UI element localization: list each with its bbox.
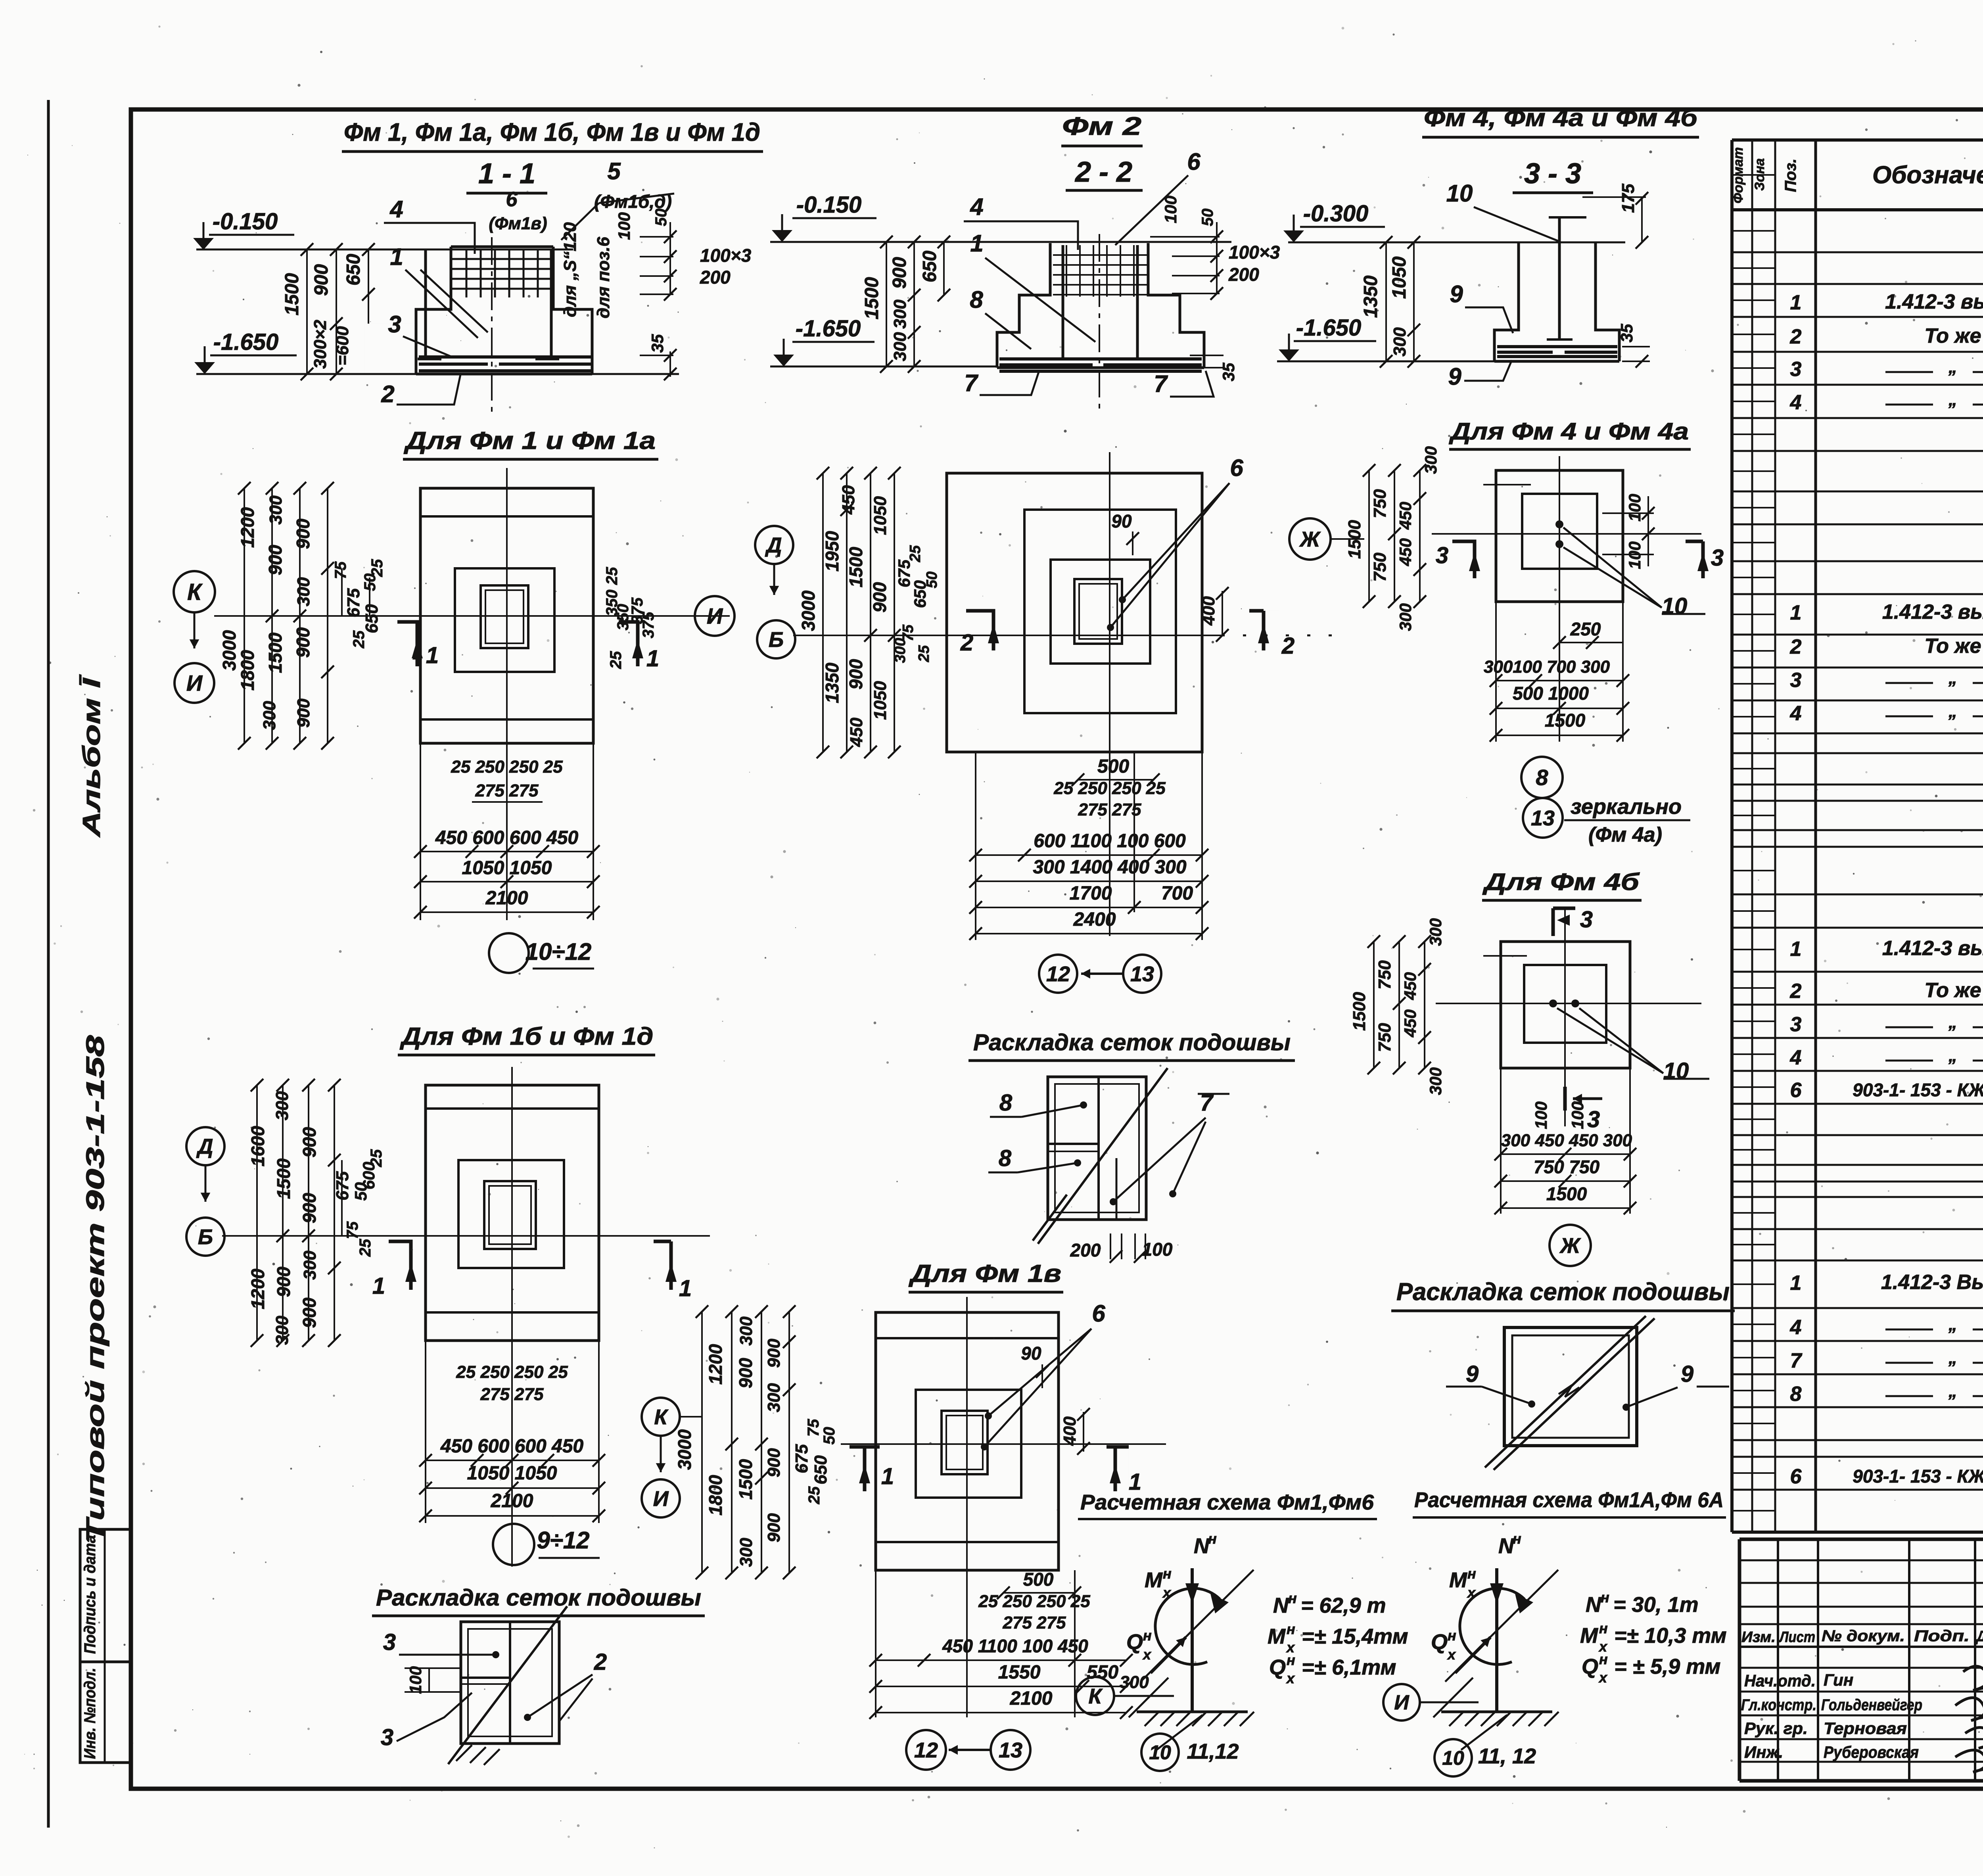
svg-text:(Фм1в): (Фм1в) [489,214,547,233]
svg-text:2: 2 [381,381,394,407]
plan Фм1б section cut 1 marks [389,1241,411,1290]
axis circle И left [175,663,214,703]
svg-text:1200: 1200 [247,1268,268,1309]
svg-text:И: И [1394,1691,1410,1714]
plan Фм4 left dim chain [1368,470,1370,602]
svg-text:M: M [1268,1625,1286,1648]
svg-text:1500: 1500 [282,273,303,315]
svg-text:1: 1 [881,1464,894,1489]
svg-text:25 250 250 25: 25 250 250 25 [1053,779,1166,798]
svg-text:300100 700 300: 300100 700 300 [1484,657,1610,677]
title block outline [1739,1538,1983,1541]
svg-text:675: 675 [792,1444,811,1473]
svg-text:750: 750 [1370,552,1390,582]
svg-text:Раскладка сеток подошвы: Раскладка сеток подошвы [376,1585,701,1611]
svg-text:x: x [1447,1646,1456,1663]
svg-text:Типовой проект 903-1-158: Типовой проект 903-1-158 [81,1035,109,1543]
svg-text:1050: 1050 [871,496,890,535]
axis circle К [174,571,215,612]
svg-text:н: н [1601,1589,1609,1606]
mesh detail 3 break mark [1559,1385,1579,1397]
svg-text:100×3: 100×3 [1229,242,1280,263]
plan Фм4 outer square [1496,470,1623,602]
mesh detail 3 outline [1504,1327,1637,1446]
calc diagram 1 circle 10 и 11,12 [1141,1734,1179,1771]
svg-text:3: 3 [383,1629,396,1655]
svg-text:1800: 1800 [237,650,258,691]
svg-text:1: 1 [970,230,983,257]
svg-text:1.412-3 вып. II: 1.412-3 вып. II [1882,937,1983,960]
section 3-3 left dims [1385,242,1387,361]
svg-text:1500: 1500 [273,1158,294,1199]
svg-text:1050: 1050 [1389,256,1410,299]
plan Фм2 middle tier [1024,510,1176,713]
svg-text:н: н [1599,1620,1608,1636]
svg-text:Q: Q [1431,1630,1448,1654]
svg-text:675: 675 [344,588,363,618]
svg-text:6: 6 [1230,455,1243,481]
section 3-3 bottom mesh [1497,345,1617,348]
svg-text:2: 2 [960,630,973,656]
svg-text:450: 450 [1401,1009,1419,1038]
svg-text:1.412-3 вып.II: 1.412-3 вып.II [1885,290,1983,313]
svg-text:2100: 2100 [485,888,528,909]
svg-text:И: И [653,1487,669,1511]
svg-text:450 600 600 450: 450 600 600 450 [440,1436,584,1457]
svg-text:6: 6 [1092,1300,1105,1327]
svg-text:300: 300 [272,1091,292,1120]
svg-text:300: 300 [890,332,910,361]
svg-text:75: 75 [805,1419,822,1437]
plan Фм1б column [484,1181,536,1249]
svg-text:1: 1 [1790,938,1802,961]
svg-text:10: 10 [1662,593,1688,619]
svg-text:300 1400 400 300: 300 1400 400 300 [1033,857,1186,878]
svg-text:9: 9 [1450,281,1463,307]
svg-text:3: 3 [1790,669,1802,692]
svg-text:25: 25 [603,567,621,585]
svg-text:-1.650: -1.650 [213,329,278,355]
svg-text:зеркально: зеркально [1571,795,1682,819]
svg-text:900: 900 [889,257,910,289]
svg-text:275 275: 275 275 [1078,800,1141,819]
svg-text:4: 4 [1790,1046,1802,1069]
svg-text:9: 9 [1681,1361,1693,1387]
plan Фм1в axes [841,1443,1166,1445]
svg-text:13: 13 [1531,806,1555,830]
axis circle Д right [755,526,793,564]
svg-text:13: 13 [1130,962,1154,986]
svg-text:Для Фм 1в: Для Фм 1в [908,1260,1061,1287]
svg-text:1550: 1550 [998,1662,1041,1683]
svg-text:3: 3 [1587,1107,1600,1132]
svg-text:6: 6 [1187,148,1201,175]
plan Фм1б tier lines [426,1107,599,1110]
plan Фм1в column [942,1411,988,1474]
svg-text:1600: 1600 [247,1126,268,1166]
svg-text:25: 25 [805,1486,823,1504]
svg-text:Инж.: Инж. [1744,1743,1783,1761]
plan Фм1 column [481,585,528,648]
plan Фм1 slab outline [420,488,593,743]
svg-text:1 - 1: 1 - 1 [478,158,535,190]
svg-text:25: 25 [350,630,368,648]
svg-text:M: M [1580,1624,1598,1648]
svg-text:300: 300 [764,1383,784,1412]
svg-text:К: К [1088,1684,1103,1708]
bottom line section 1-1 [196,373,679,375]
svg-text:„: „ [1948,390,1957,409]
svg-text:Для Фм 4 и Фм 4а: Для Фм 4 и Фм 4а [1448,418,1689,445]
svg-text:300 450 450 300: 300 450 450 300 [1501,1131,1632,1150]
svg-text:4: 4 [970,194,983,220]
plan Фм1в middle square [916,1390,1021,1498]
svg-text:50: 50 [821,1427,838,1445]
svg-text:Терновая: Терновая [1824,1719,1907,1738]
svg-text:9: 9 [1448,363,1461,390]
svg-text:100: 100 [1142,1239,1173,1260]
svg-text:M: M [1449,1568,1467,1592]
section 2-2 column mesh hatch [1066,245,1067,297]
svg-text:2: 2 [1281,633,1295,659]
svg-text:н: н [1448,1627,1456,1644]
svg-text:25: 25 [357,1239,374,1257]
svg-text:200: 200 [1070,1240,1101,1260]
svg-text:3: 3 [1436,543,1448,568]
svg-text:2: 2 [594,1649,607,1675]
svg-text:200: 200 [1228,264,1259,285]
svg-text:2400: 2400 [1073,909,1116,930]
plan Фм4б axes [1436,1003,1701,1004]
svg-text:275 275: 275 275 [475,781,539,800]
svg-text:100: 100 [1161,196,1180,223]
svg-text:= 30, 1т: = 30, 1т [1613,1593,1699,1617]
svg-text:1050: 1050 [871,681,890,720]
svg-text:И: И [707,604,723,629]
svg-text:50: 50 [924,572,940,588]
svg-text:Лист: Лист [1778,1629,1815,1646]
svg-text:450 1100 100 450: 450 1100 100 450 [942,1636,1088,1656]
plan Фм4б inner square [1524,965,1606,1043]
svg-text:900: 900 [273,1266,294,1297]
svg-text:300: 300 [260,701,279,730]
svg-text:90: 90 [1021,1343,1041,1364]
plan Фм4 section cut 3 marks [1452,541,1475,578]
svg-text:400: 400 [1060,1416,1080,1446]
svg-text:То же: То же [1924,979,1981,1002]
ground line section 2-2 [770,241,1231,243]
svg-text:-1.650: -1.650 [1296,315,1361,341]
plan Фм4б section cut 3 top [1553,907,1575,910]
svg-text:Подп.: Подп. [1914,1627,1970,1645]
svg-text:=600: =600 [333,326,352,366]
svg-text:3000: 3000 [798,590,819,631]
svg-text:x: x [1142,1646,1152,1663]
svg-text:650: 650 [919,251,940,282]
svg-text:Гин: Гин [1824,1671,1853,1689]
svg-text:100: 100 [1568,1101,1587,1129]
plan Фм1 axes [214,615,730,617]
svg-text:7: 7 [964,370,978,396]
svg-text:175: 175 [1619,184,1638,213]
svg-text:300: 300 [1390,327,1410,357]
svg-text:650: 650 [343,254,364,286]
svg-text:900: 900 [869,582,890,612]
title block left grid horizontals [1739,1559,1983,1561]
svg-text:3: 3 [381,1724,393,1750]
svg-text:2: 2 [1790,980,1802,1003]
svg-text:900: 900 [764,1513,784,1542]
svg-text:12: 12 [914,1738,938,1762]
svg-text:4: 4 [1790,1316,1802,1339]
svg-text:300×2: 300×2 [311,320,330,369]
svg-text:903-1- 153 - КЖИ - МН2: 903-1- 153 - КЖИ - МН2 [1853,1080,1983,1100]
svg-text:Рук. гр.: Рук. гр. [1744,1719,1808,1738]
svg-text:1800: 1800 [705,1475,726,1515]
svg-text:600 1100 100 600: 600 1100 100 600 [1034,831,1186,852]
svg-text:1500: 1500 [1350,992,1369,1031]
svg-text:Б: Б [198,1225,213,1249]
svg-text:N: N [1586,1593,1601,1617]
plan Фм1б bottom axis circle 9-12 [493,1524,534,1565]
svg-text:И: И [186,671,203,696]
svg-text:300: 300 [294,577,313,606]
svg-text:50: 50 [652,209,670,226]
svg-text:н: н [1513,1531,1521,1547]
svg-text:н: н [1288,1590,1297,1606]
svg-text:375: 375 [640,612,657,638]
svg-text:4: 4 [389,196,403,223]
svg-text:н: н [1163,1565,1172,1582]
svg-text:н: н [1599,1651,1608,1667]
svg-text:-1.650: -1.650 [796,316,861,341]
svg-text:2: 2 [1790,325,1802,348]
plan Фм1б axes [222,1235,710,1237]
svg-text:7: 7 [1790,1349,1803,1372]
svg-text:1500: 1500 [265,632,286,673]
calc diagram 1 axis circle К [1076,1677,1114,1715]
svg-text:300: 300 [1396,603,1415,631]
svg-text:1200: 1200 [705,1344,726,1385]
svg-text:300: 300 [300,1251,320,1280]
plan Фм4б section cut 3 bottom [1563,1087,1567,1111]
svg-text:3000: 3000 [219,630,240,671]
svg-text:Нач.отд.: Нач.отд. [1744,1671,1816,1690]
svg-text:500 1000: 500 1000 [1513,683,1589,704]
svg-text:900: 900 [293,518,313,549]
svg-text:6: 6 [1790,1465,1802,1488]
svg-text:700: 700 [1161,883,1193,904]
svg-text:x: x [1598,1669,1608,1686]
svg-text:9÷12: 9÷12 [537,1527,589,1554]
svg-text:Q: Q [1582,1655,1598,1678]
plan Фм2 slab outline [947,473,1202,752]
plan Фм2 axes [793,635,1222,636]
svg-text:Дата: Дата [1975,1628,1983,1645]
svg-text:Ж: Ж [1299,528,1321,551]
plan Фм1в slab outline [876,1312,1059,1570]
svg-text:„: „ [1948,1381,1957,1401]
svg-text:900: 900 [764,1448,784,1477]
svg-text:900: 900 [299,1127,320,1157]
svg-text:300: 300 [272,1316,292,1345]
svg-text:900: 900 [764,1339,784,1368]
section 2-2 left dim chain [886,242,887,366]
plan Фм4б outer square [1501,942,1630,1068]
svg-text:5: 5 [607,158,621,184]
svg-text:2 - 2: 2 - 2 [1074,156,1132,188]
axis circle Д left [186,1127,224,1165]
section 1-1 bottom mesh bars [419,355,591,359]
calc diagram 2 circle 10 и 11,12 [1435,1739,1472,1776]
svg-text:1050 1050: 1050 1050 [462,857,552,879]
svg-text:1: 1 [390,244,403,270]
svg-text:н: н [1287,1652,1295,1668]
plan Фм1в left dim chains [701,1312,703,1573]
svg-text:3: 3 [1790,358,1802,381]
svg-text:н: н [1287,1621,1295,1637]
svg-text:Фм 2: Фм 2 [1062,112,1141,140]
ground line top section 1-1 [196,249,573,251]
svg-text:Расчетная схема Фм1А,Фм 6А: Расчетная схема Фм1А,Фм 6А [1414,1488,1724,1512]
svg-text:Б: Б [769,628,784,652]
axis circle Ж bottom [1550,1225,1591,1266]
svg-text:Руберовская: Руберовская [1824,1743,1919,1761]
plan Фм1в axis circles 12 13 [906,1730,946,1770]
svg-text:300: 300 [892,638,909,663]
svg-text:Q: Q [1269,1655,1286,1679]
svg-text:„: „ [1948,1013,1957,1032]
svg-text:„: „ [1948,702,1957,721]
section 2-2 foundation outline [997,243,1050,368]
mesh detail 2 outline [1048,1077,1146,1220]
plan Фм2 left dim chains [822,473,824,752]
svg-text:50: 50 [1199,209,1216,226]
svg-text:6: 6 [1790,1079,1802,1102]
svg-text:1: 1 [1790,291,1802,314]
plan Фм4 anchor dots and leaders [1555,520,1563,528]
svg-text:25 250 250 25: 25 250 250 25 [456,1362,568,1382]
svg-text:н: н [1143,1627,1152,1644]
svg-text:250: 250 [1570,619,1601,639]
svg-text:200: 200 [700,267,731,288]
svg-text:1: 1 [426,643,439,668]
svg-text:„: „ [1948,668,1957,688]
svg-text:25: 25 [607,651,625,669]
svg-text:100×3: 100×3 [700,245,752,266]
svg-text:„: „ [1948,357,1957,377]
svg-text:6: 6 [506,188,518,211]
svg-text:1: 1 [679,1276,692,1301]
section 1-1 rebar bars [424,250,427,359]
svg-text:Раскладка сеток подошвы: Раскладка сеток подошвы [1396,1278,1730,1306]
svg-text:12: 12 [1046,962,1070,986]
svg-text:Поз.: Поз. [1782,159,1799,192]
section 1-1 centre axis [491,237,493,415]
axis circle Ж [1289,518,1331,560]
svg-text:900: 900 [265,545,286,575]
svg-text:25: 25 [907,545,924,562]
section 1-1 column mesh hatch [466,249,468,297]
svg-text:1.412-3 Вып. II: 1.412-3 Вып. II [1881,1271,1983,1294]
svg-text:1500: 1500 [1545,710,1586,731]
mesh detail 3 diagonals [1485,1316,1646,1467]
svg-text:450: 450 [1396,502,1415,530]
svg-text:3: 3 [1711,545,1724,571]
svg-text:650: 650 [811,1455,830,1485]
svg-text:н: н [1467,1565,1476,1582]
svg-text:100: 100 [615,212,633,240]
svg-text:750: 750 [1375,960,1394,990]
svg-text:900: 900 [846,659,866,689]
svg-text:1500: 1500 [846,547,866,587]
axis circle И right [695,596,735,636]
svg-text:Д: Д [196,1135,213,1159]
svg-text:10÷12: 10÷12 [525,938,591,965]
svg-text:Д: Д [765,533,782,557]
svg-text:75: 75 [344,1221,361,1239]
plan Фм1 bottom axis circle 10-12 [489,933,529,973]
svg-text:8: 8 [1790,1383,1802,1406]
svg-text:Ж: Ж [1559,1234,1581,1258]
ground line section 3-3 [1288,242,1625,244]
svg-text:275 275: 275 275 [1002,1613,1066,1632]
svg-text:750: 750 [1370,489,1390,518]
axis circle Б left [186,1218,224,1256]
section 1-1 right dims [640,236,673,238]
svg-text:3: 3 [1790,1013,1802,1036]
svg-text:N: N [1273,1594,1289,1617]
svg-text:Альбом Ī: Альбом Ī [78,674,105,838]
plan Фм4б left dim chain [1373,942,1375,1068]
mesh detail 1 diagonal [448,1606,567,1764]
mesh detail 2 diagonal [1038,1068,1168,1244]
svg-text:900: 900 [293,627,313,658]
svg-text:= ± 5,9 тм: = ± 5,9 тм [1614,1655,1721,1678]
section 2-2 rebars [1062,245,1064,359]
svg-text:100: 100 [1532,1101,1550,1129]
section 2-2 bottom mesh bars [999,357,1202,361]
svg-text:x: x [1162,1584,1172,1601]
svg-text:N: N [1498,1534,1514,1558]
svg-text:Для Фм 1б и Фм 1д: Для Фм 1б и Фм 1д [399,1023,653,1050]
svg-text:900: 900 [294,698,313,728]
svg-text:1700: 1700 [1070,883,1112,904]
svg-text:Фм 1, Фм 1а, Фм 1б, Фм 1в и Фм: Фм 1, Фм 1а, Фм 1б, Фм 1в и Фм 1д [344,118,760,146]
svg-text:1950: 1950 [822,531,842,572]
svg-text:То же: То же [1924,324,1981,347]
svg-text:10: 10 [1446,180,1473,207]
svg-text:7: 7 [1154,370,1168,397]
mesh detail 2 inner bars [1097,1077,1100,1220]
plan Фм2 column [1074,579,1122,644]
svg-text:10: 10 [1149,1742,1171,1764]
svg-text:Раскладка сеток подошвы: Раскладка сеток подошвы [973,1030,1291,1055]
svg-text:25: 25 [368,559,386,577]
svg-text:3 - 3: 3 - 3 [1524,158,1581,190]
svg-text:„: „ [1948,1348,1957,1368]
svg-text:4: 4 [1790,391,1802,414]
svg-text:3: 3 [1580,907,1593,932]
mesh detail 1 inner bars [509,1622,511,1744]
svg-text:1.412-3 вып. II: 1.412-3 вып. II [1882,600,1983,623]
svg-text:Фм 4, Фм 4а и Фм 4б: Фм 4, Фм 4а и Фм 4б [1424,104,1698,132]
section 2-2 centre axis [1099,234,1100,412]
svg-text:н: н [1208,1531,1217,1547]
svg-text:Для Фм 4б: Для Фм 4б [1482,869,1640,895]
svg-text:25: 25 [916,645,932,662]
svg-text:300: 300 [1120,1673,1149,1692]
